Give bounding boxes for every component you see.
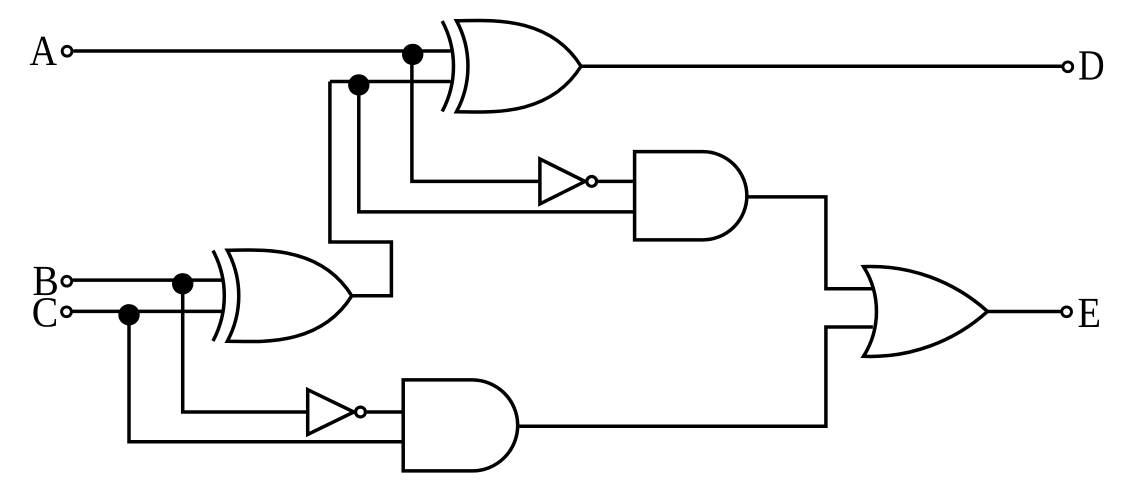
wire B input	[73, 278, 222, 282]
and gate AND1	[635, 152, 747, 240]
terminal B	[62, 276, 72, 286]
wire A input	[74, 49, 451, 53]
junction dot on C wire	[118, 304, 139, 325]
wire C input	[73, 310, 222, 314]
wire OR1 output to E	[987, 310, 1060, 314]
wire NOT2 output to AND2	[367, 410, 403, 414]
and gate AND2	[403, 380, 518, 471]
inverter NOT1	[540, 159, 597, 204]
xor gate XOR2 (B xor C)	[213, 250, 352, 342]
terminal E	[1062, 307, 1072, 317]
junction dot on XOR1 second input	[348, 74, 369, 95]
inverter NOT2	[308, 390, 366, 435]
terminal D	[1063, 62, 1073, 72]
junction dot on A wire	[402, 44, 423, 65]
svg-text:A: A	[30, 28, 58, 75]
wire NOT1 output to AND1	[598, 180, 635, 184]
wire XOR2 output to XOR1 input	[330, 82, 392, 296]
wire XOR1 output to D	[580, 65, 1062, 69]
svg-text:E: E	[1078, 290, 1102, 337]
svg-text:D: D	[1078, 43, 1105, 90]
wire dot2 to AND1 lower input	[359, 82, 635, 212]
wire XOR1 second input	[330, 80, 451, 84]
terminal C	[62, 307, 72, 317]
wire C-dot to AND2 lower input	[129, 311, 403, 441]
wire AND2 output to OR1 lower input	[517, 327, 873, 426]
junction dot on B wire	[172, 273, 193, 294]
wire AND1 output to OR1 upper input	[747, 197, 873, 289]
svg-text:C: C	[32, 289, 59, 336]
xor gate XOR1 (A xor (B xor C))	[442, 20, 581, 112]
wire B-dot to NOT2	[183, 280, 308, 412]
or gate OR1	[864, 266, 988, 356]
terminal A	[62, 46, 72, 56]
wire dot1 to NOT1	[412, 51, 540, 181]
